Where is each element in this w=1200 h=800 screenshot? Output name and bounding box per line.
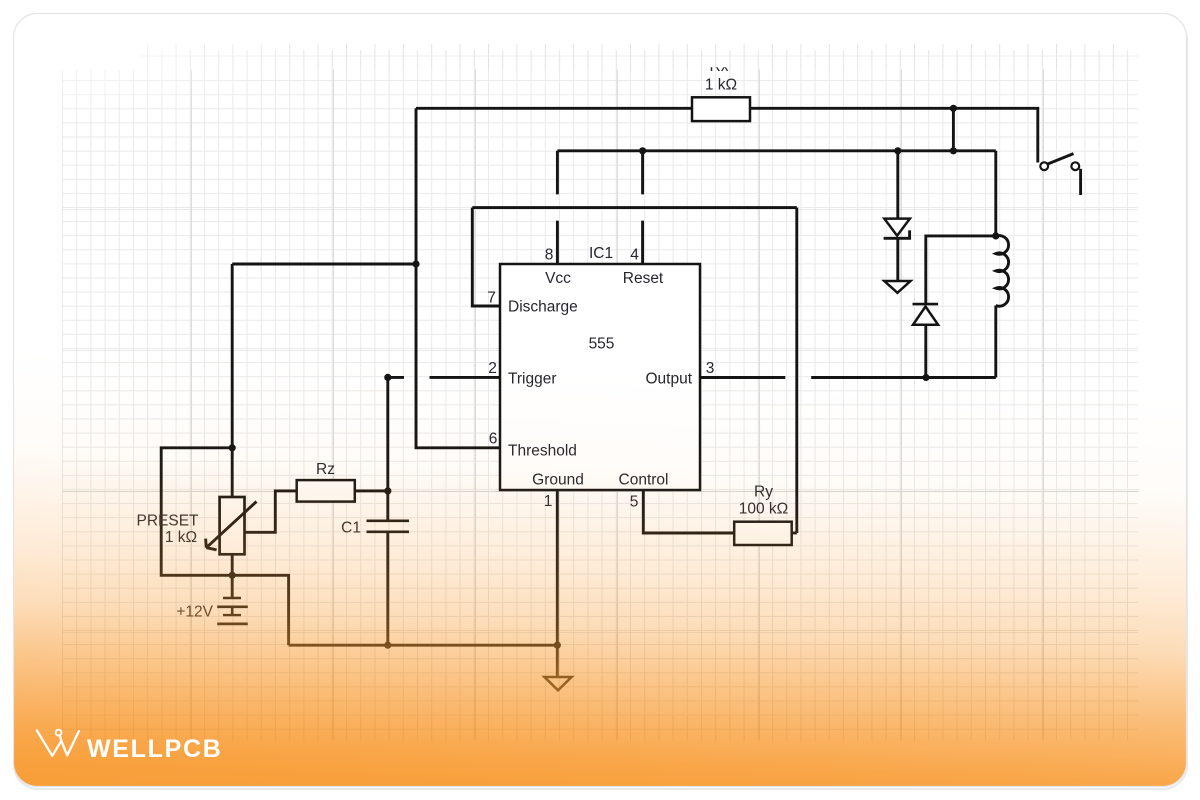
wire preset vertical [231, 264, 234, 497]
diode D1 cathode bar with tick [884, 230, 910, 238]
node preset branch [412, 260, 419, 267]
node preset top [229, 444, 236, 451]
wire Rz right [355, 489, 388, 492]
wire drop rail1 to rail2 [952, 108, 955, 151]
wire rail2 horizontal [557, 149, 995, 152]
wire flyback diode vertical lower [924, 325, 927, 378]
node LED branch [894, 147, 901, 154]
diode D2 flyback triangle [913, 307, 938, 325]
label Rx clipped [710, 58, 729, 75]
node preset bottom [229, 572, 236, 579]
wire wiper [245, 491, 297, 532]
op-amp/IC box U1 555 [500, 264, 700, 490]
wire Ry right stub [792, 532, 797, 535]
wire pin8 vertical with hop [556, 151, 559, 264]
torn bottom tick band [62, 716, 922, 742]
node pin4/rail2 [639, 147, 646, 154]
wire trigger with hop [388, 376, 500, 379]
node C1/ground rail [384, 642, 391, 649]
node coil top [992, 232, 999, 239]
wire pin1 ground vertical [556, 490, 559, 677]
wire left vertical Rx to threshold [416, 108, 500, 448]
wire preset bottom stub [231, 554, 234, 575]
resistor Rx body [692, 97, 750, 121]
node flyback/output [922, 374, 929, 381]
node drop/rail2 [950, 147, 957, 154]
battery cell stub [231, 607, 234, 615]
svg-text:WELLPCB: WELLPCB [87, 735, 223, 763]
node Rz/C1 [384, 487, 391, 494]
capacitor C1 bottom wire [386, 533, 389, 645]
wire Vcc top rail right segment to switch [750, 108, 1038, 162]
ground symbol [545, 677, 572, 690]
wire preset left loop [161, 448, 232, 576]
wire LED branch lower [896, 238, 899, 281]
battery +12V plates [223, 598, 241, 615]
wire pin5 control to Ry [643, 490, 734, 533]
wire ground rail [289, 644, 558, 647]
diode D1 triangle [884, 219, 910, 236]
diode D2 cathode bar [913, 303, 939, 306]
wire mid horizontal (discharge to Ry loop) [472, 206, 797, 209]
node trigger/C1 [384, 374, 391, 381]
wire preset top horizontal [232, 263, 416, 266]
torn top tick band [140, 43, 1138, 70]
switch SW1 contact circle left [1040, 162, 1048, 170]
node rail1/drop [950, 105, 957, 112]
arrow head open triangle [884, 281, 910, 293]
top-left white fade [0, 0, 520, 240]
wire pin7 discharge [472, 208, 500, 306]
graph paper grid [62, 70, 1138, 741]
switch SW1 blade [1048, 154, 1074, 164]
wire preset bottom to ground rail [232, 575, 288, 645]
wire coil bottom vertical [994, 306, 997, 378]
logo W mark [37, 730, 79, 755]
wire right vertical to Ry [795, 208, 798, 533]
switch SW1 contact circle right [1071, 162, 1079, 170]
wire rail2 down to coil top [994, 151, 997, 237]
capacitor C1 plates [367, 521, 410, 532]
inductor relay coil [996, 236, 1009, 307]
wire flyback diode vertical upper [926, 236, 996, 304]
resistor Ry body [734, 522, 792, 545]
wire Vcc top rail left segment [416, 107, 692, 110]
resistor Rz body [297, 480, 355, 502]
wire switch lower stub [1079, 169, 1082, 195]
node pin1/ground rail [554, 642, 561, 649]
capacitor C1 top wire [386, 377, 389, 519]
wire LED branch upper [896, 151, 899, 219]
wire output pin3 with hop [700, 376, 996, 379]
potentiometer arrow [206, 502, 257, 550]
wire pin4 vertical with hop [641, 151, 644, 264]
battery +12V top wire [231, 575, 234, 598]
grid over orange [62, 540, 1138, 740]
potentiometer PRESET body [220, 497, 245, 554]
